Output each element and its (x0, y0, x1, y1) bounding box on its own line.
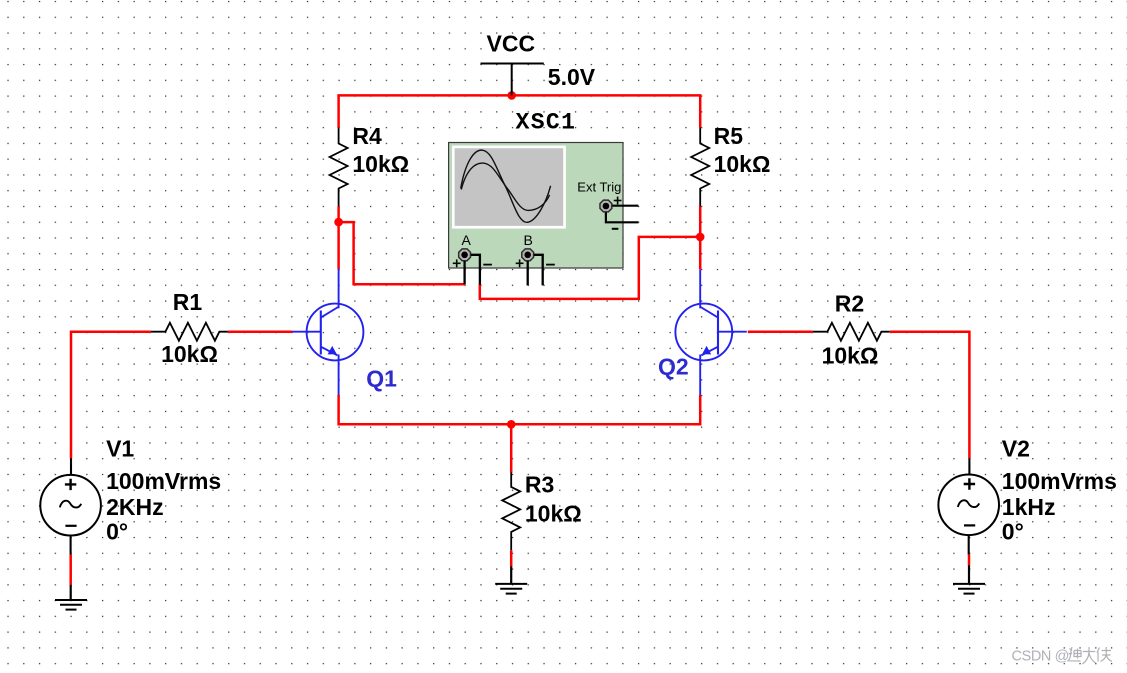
svg-text:10kΩ: 10kΩ (714, 151, 771, 177)
transistor Q1 (292, 269, 363, 395)
svg-text:0°: 0° (1002, 519, 1024, 545)
svg-text:1kHz: 1kHz (1002, 494, 1056, 520)
scope input A pin (459, 249, 471, 261)
scope input A minus (483, 264, 492, 266)
scope input B minus (546, 264, 555, 266)
oscilloscope screen (455, 148, 564, 226)
svg-text:XSC1: XSC1 (516, 109, 577, 135)
wire R4 to Q1 collector (337, 206, 340, 269)
source V1 (40, 458, 101, 554)
resistor R2 (813, 323, 890, 341)
scope Ext Trig wires (606, 206, 639, 223)
scope input A- lead (471, 255, 480, 285)
ground V2 stub (968, 565, 970, 584)
scope input A+ lead (463, 261, 465, 284)
scope Ext Trig plus (614, 197, 622, 205)
wire V1 to R1 (71, 332, 151, 459)
svg-text:V1: V1 (106, 436, 134, 462)
svg-text:R4: R4 (352, 123, 382, 149)
svg-text:100mVrms: 100mVrms (106, 468, 221, 494)
svg-text:10kΩ: 10kΩ (525, 501, 582, 527)
svg-text:Q2: Q2 (658, 354, 689, 380)
wire scope A- to R5 junction (480, 237, 700, 299)
scope input B pin (522, 249, 534, 261)
scope input B plus (516, 259, 524, 267)
ground V2 (953, 584, 985, 594)
svg-text:B: B (524, 232, 533, 248)
svg-text:R2: R2 (835, 290, 864, 316)
resistor R3 (502, 473, 520, 551)
svg-text:2KHz: 2KHz (106, 494, 164, 520)
wire emitters bottom rail (339, 395, 701, 424)
node emitter-R3 junction (507, 420, 516, 429)
wire R2 to V2 (890, 332, 970, 459)
ground V1 stub (70, 585, 72, 600)
wire V2 to ground (968, 554, 971, 565)
node R5-collector junction (696, 233, 705, 242)
wire junction to scope A+ (339, 222, 466, 284)
source V2 (938, 458, 999, 554)
wire V1 to ground (69, 554, 72, 585)
svg-text:Ext Trig: Ext Trig (577, 180, 621, 195)
svg-text:10kΩ: 10kΩ (822, 342, 879, 368)
transistor Q2 (675, 270, 746, 395)
ground V1 (55, 600, 87, 610)
wire R3 to ground (510, 550, 513, 566)
svg-text:VCC: VCC (487, 30, 536, 56)
svg-text:100mVrms: 100mVrms (1002, 468, 1117, 494)
wire R1 to Q1 base (228, 330, 292, 333)
resistor R5 (691, 128, 709, 207)
wire junction to R3 (510, 424, 513, 472)
scope trace A (461, 150, 551, 222)
node VCC junction (507, 91, 516, 100)
oscilloscope XSC1 body (449, 143, 623, 269)
svg-text:A: A (462, 232, 472, 248)
svg-text:0°: 0° (106, 519, 128, 545)
watermark CJK glyphs (1068, 647, 1112, 664)
svg-text:R3: R3 (525, 472, 554, 498)
svg-text:Q1: Q1 (366, 366, 397, 392)
svg-text:10kΩ: 10kΩ (161, 341, 218, 367)
scope trace B (461, 163, 549, 210)
ground middle stub (510, 566, 512, 583)
svg-text:R1: R1 (173, 289, 203, 315)
scope Ext Trig pin (600, 200, 612, 212)
resistor R4 (330, 128, 348, 207)
wire top rail VCC to R4/R5 (339, 95, 701, 127)
svg-text:CSDN @: CSDN @ (1012, 649, 1069, 665)
svg-text:10kΩ: 10kΩ (352, 151, 409, 177)
wire R5 to Q2 collector (699, 206, 702, 269)
scope input A plus (453, 259, 461, 267)
scope input B- lead (534, 255, 543, 286)
resistor R1 (151, 323, 228, 341)
svg-text:R5: R5 (714, 123, 744, 149)
svg-text:V2: V2 (1002, 436, 1030, 462)
wire Q2 base to R2 (748, 330, 813, 333)
power VCC (481, 64, 544, 96)
ground middle (495, 584, 527, 594)
scope Ext Trig minus (612, 228, 619, 230)
oscilloscope screen frame (452, 146, 566, 229)
svg-text:5.0V: 5.0V (548, 64, 596, 90)
node R4-collector junction (334, 218, 343, 227)
scope input B+ lead (527, 261, 529, 285)
